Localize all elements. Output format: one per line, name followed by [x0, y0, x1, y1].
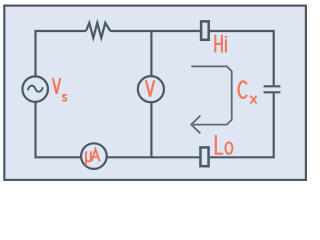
- wire left-bottom segment: [36, 102, 82, 158]
- label V inside voltmeter: [146, 80, 154, 96]
- wire resistor to Hi terminal: [110, 30, 200, 32]
- label Hi: [215, 35, 226, 53]
- label Vs: [53, 78, 67, 101]
- label Cx: [238, 81, 256, 103]
- label Lo: [216, 135, 233, 154]
- AC source Vs circle: [22, 76, 48, 102]
- capacitor Cx plates: [264, 86, 281, 92]
- voltmeter circle: [138, 76, 164, 102]
- microammeter circle: [81, 143, 107, 169]
- wire middle branch bottom: [150, 102, 152, 157]
- sine symbol inside source: [28, 86, 43, 92]
- resistor R: [86, 23, 110, 38]
- label uA inside microammeter: [86, 149, 100, 165]
- Hi terminal rectangle: [201, 21, 209, 39]
- panel background: [4, 6, 306, 180]
- wire Lo terminal to microammeter: [107, 156, 200, 158]
- wire Hi terminal to top-right corner down to capacitor: [210, 31, 274, 85]
- wire capacitor to bottom-right corner to Lo terminal: [210, 93, 274, 157]
- wire top-left segment: [36, 31, 87, 76]
- current direction arrow: [191, 66, 232, 133]
- wire middle branch top: [150, 31, 152, 76]
- Lo terminal rectangle: [200, 147, 208, 166]
